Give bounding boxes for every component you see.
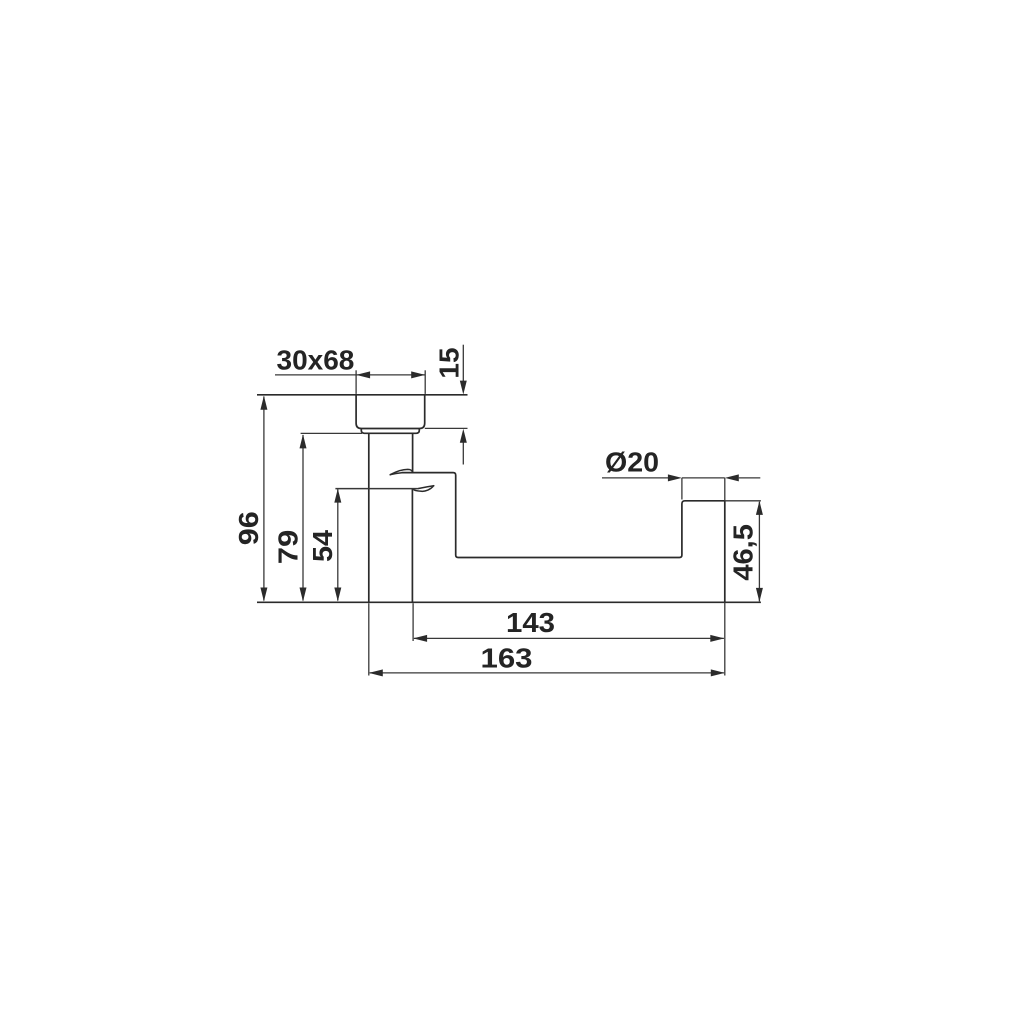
dim 96 line xyxy=(263,397,265,601)
arrow 143 right xyxy=(710,635,724,642)
arrow 79 up xyxy=(300,434,307,448)
bend silhouette crescent B upper arc xyxy=(419,486,434,489)
arrow 96 up xyxy=(260,396,267,410)
arrow 15 down xyxy=(460,381,467,395)
svg-text:54: 54 xyxy=(307,530,338,562)
arrow D20 right-pointing xyxy=(668,474,682,481)
arrow 54 up xyxy=(334,489,341,503)
bend silhouette crescent A upper arc xyxy=(390,469,412,474)
arrowheads xyxy=(260,371,763,676)
dim 46,5 line xyxy=(758,502,760,602)
ext neck-right below baseline xyxy=(412,603,414,641)
arrow D20 left-pointing xyxy=(725,474,739,481)
neck right edge lower xyxy=(411,489,413,603)
dim D20 middle segment xyxy=(682,477,725,479)
ext line 79 top xyxy=(301,432,362,434)
svg-text:30x68: 30x68 xyxy=(277,345,355,376)
svg-text:79: 79 xyxy=(273,530,304,565)
labels xyxy=(233,345,759,674)
ext lines above rose xyxy=(355,370,357,394)
door reference line (top) xyxy=(257,394,468,396)
arrow 96 down xyxy=(260,588,267,602)
dim 54 line xyxy=(337,489,339,600)
arrow 30x68 right xyxy=(411,371,425,378)
arrow 163 left xyxy=(369,669,383,676)
dim 163 line xyxy=(370,672,724,674)
rose (30x68 rosette body) xyxy=(356,395,425,429)
end cap right ext above/below xyxy=(724,478,726,501)
dim 15 upper segment xyxy=(462,345,464,381)
end cap right edge xyxy=(724,501,726,603)
cap top ext to 46,5 xyxy=(725,500,761,502)
svg-text:143: 143 xyxy=(506,607,555,638)
ext line rose bottom right xyxy=(425,427,468,429)
ext neck-left below baseline xyxy=(368,603,370,675)
ext line D20 left xyxy=(681,478,683,500)
arrow 46,5 down xyxy=(756,588,763,602)
dimension lines and extension lines xyxy=(264,345,761,676)
arrow 15 up xyxy=(460,429,467,443)
arrow 143 left xyxy=(413,635,427,642)
ext/silhouette line 54 top xyxy=(335,488,418,490)
arrow 54 down xyxy=(334,588,341,602)
dim 79 line xyxy=(302,435,304,601)
rose collar xyxy=(361,429,419,434)
arrow 30x68 left xyxy=(356,371,370,378)
svg-text:163: 163 xyxy=(481,642,533,673)
arrow 163 right xyxy=(711,669,725,676)
svg-text:96: 96 xyxy=(233,511,264,545)
grip inner U and end cap top xyxy=(402,473,725,558)
bend silhouette crescent A lower arc xyxy=(390,473,402,475)
dim 143 line xyxy=(414,637,724,639)
dim 15 lower segment xyxy=(462,442,464,465)
dim D20 right segment xyxy=(739,477,761,479)
neck left edge xyxy=(368,433,370,602)
bend silhouette crescent B lower arc xyxy=(413,486,434,492)
svg-text:46,5: 46,5 xyxy=(728,524,759,581)
svg-text:Ø20: Ø20 xyxy=(605,446,659,477)
neck right edge upper xyxy=(412,433,414,472)
dim D20 left segment xyxy=(602,477,668,479)
arrow 79 down xyxy=(300,588,307,602)
arrow 46,5 up xyxy=(756,501,763,515)
dim 30x68 line xyxy=(275,374,425,376)
grip bottom / baseline xyxy=(257,601,761,603)
svg-text:15: 15 xyxy=(434,347,465,378)
